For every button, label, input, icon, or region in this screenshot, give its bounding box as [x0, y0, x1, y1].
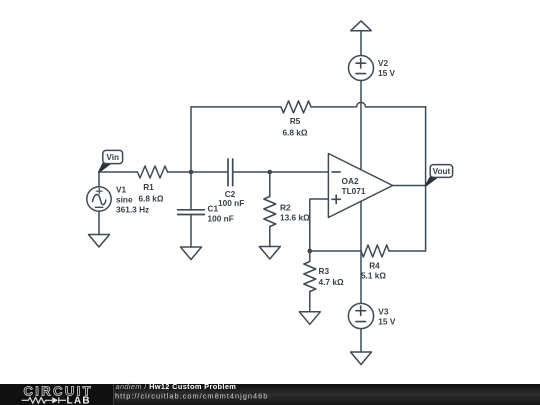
- wire op-amp output: [393, 185, 426, 187]
- svg-text:sine: sine: [116, 195, 133, 205]
- svg-text:V2: V2: [378, 58, 389, 68]
- C1 labels: [208, 204, 234, 224]
- resistor R1: [138, 166, 168, 178]
- R4 labels: [361, 260, 386, 280]
- wire R1 to node A: [168, 171, 192, 173]
- ground (R3): [299, 312, 320, 325]
- svg-text:R5: R5: [290, 116, 301, 126]
- svg-text:6.8 kΩ: 6.8 kΩ: [138, 193, 163, 203]
- svg-text:Vin: Vin: [106, 153, 119, 162]
- svg-text:R1: R1: [143, 182, 154, 192]
- node C junction: [308, 249, 313, 254]
- ground (R2): [259, 247, 280, 260]
- svg-text:TL071: TL071: [342, 186, 366, 196]
- resistor R3: [304, 251, 316, 312]
- V3 labels: [378, 307, 396, 327]
- svg-text:361.3 Hz: 361.3 Hz: [116, 205, 149, 215]
- V2 labels: [378, 58, 396, 78]
- node Vout flag: [426, 165, 453, 186]
- wire node A up to feedback: [190, 107, 192, 172]
- svg-text:100 nF: 100 nF: [208, 214, 234, 224]
- svg-text:15 V: 15 V: [378, 68, 396, 78]
- svg-text:LAB: LAB: [67, 395, 91, 405]
- node A junction: [189, 170, 194, 175]
- power flag arrow (V2 top): [351, 21, 372, 56]
- capacitor C1: [178, 172, 205, 247]
- voltage source V3: [348, 303, 373, 352]
- capacitor C2: [191, 159, 270, 186]
- svg-text:OA2: OA2: [342, 176, 359, 186]
- svg-text:13.6 kΩ: 13.6 kΩ: [280, 213, 310, 223]
- R3 labels: [319, 266, 344, 287]
- CircuitLab logo: [22, 383, 93, 405]
- ground (V1): [89, 235, 110, 248]
- svg-text:http://circuitlab.com/cm8mt4nj: http://circuitlab.com/cm8mt4njgn46b: [115, 391, 268, 400]
- node B junction: [268, 170, 273, 175]
- op-amp OA2: [328, 154, 392, 218]
- svg-text:5.1 kΩ: 5.1 kΩ: [361, 270, 386, 280]
- svg-text:R2: R2: [280, 203, 291, 213]
- op-amp positive supply pin wire: [360, 81, 362, 170]
- wire feedback right segment with hop over supply: [311, 102, 426, 107]
- C2 labels: [218, 189, 244, 208]
- wire node B to op-amp inverting input: [270, 171, 329, 173]
- OA2 labels: [342, 176, 366, 196]
- svg-text:V1: V1: [116, 185, 127, 195]
- svg-text:C1: C1: [208, 204, 219, 214]
- resistor R5: [281, 101, 311, 113]
- node Vin flag: [99, 150, 123, 172]
- svg-text:andiem / Hw12 Custom Problem: andiem / Hw12 Custom Problem: [116, 382, 237, 391]
- ground (V3): [351, 352, 372, 365]
- svg-text:6.8 kΩ: 6.8 kΩ: [282, 128, 307, 138]
- svg-text:4.7 kΩ: 4.7 kΩ: [319, 277, 344, 287]
- R1 labels: [138, 182, 163, 204]
- op-amp negative supply pin wire: [360, 201, 362, 303]
- svg-text:R4: R4: [369, 260, 380, 270]
- wire feedback left segment: [191, 106, 281, 108]
- footer bar: [0, 382, 540, 405]
- R5 labels: [282, 116, 307, 138]
- resistor R2: [264, 172, 276, 247]
- svg-text:100 nF: 100 nF: [218, 198, 244, 208]
- svg-text:V3: V3: [378, 307, 389, 317]
- wire R4 to output node: [389, 250, 426, 252]
- svg-text:15 V: 15 V: [378, 317, 396, 327]
- wire V1 to R1: [99, 171, 138, 173]
- R2 labels: [280, 203, 310, 223]
- wire node C to R4: [310, 250, 361, 252]
- voltage source V1: [87, 172, 111, 235]
- resistor R4: [361, 245, 389, 257]
- svg-text:R3: R3: [319, 266, 330, 276]
- footer text: [115, 382, 268, 400]
- V1 value label: [116, 185, 149, 215]
- voltage source V2: [349, 56, 374, 81]
- wire output node vertical: [425, 107, 427, 251]
- ground (C1): [181, 247, 202, 260]
- svg-text:Vout: Vout: [433, 167, 451, 176]
- wire plus input: [310, 199, 329, 251]
